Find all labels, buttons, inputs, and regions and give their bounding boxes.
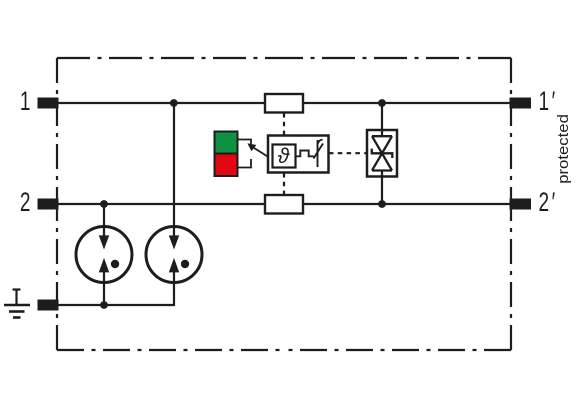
- svg-text:protected: protected: [556, 114, 572, 184]
- TVS triangle diagonal B: [372, 136, 392, 170]
- GDT1 top electrode arrow: [99, 235, 109, 249]
- GDT1 gas-filled dot: [111, 260, 119, 268]
- switch blade diagonal: [314, 144, 324, 159]
- dashed link resistor1 to thermal device: [283, 113, 285, 135]
- wire TVS bottom lead: [381, 171, 383, 205]
- wire line 1 right segment: [303, 102, 510, 104]
- wire line 2 left segment: [58, 203, 265, 205]
- junction node line2/TVS: [378, 200, 386, 208]
- wire ground rail: [58, 304, 175, 306]
- GDT1 bottom electrode arrow: [99, 258, 109, 273]
- junction node line2/GDT1: [100, 200, 108, 208]
- dashed link thermal device to TVS: [329, 152, 366, 154]
- wire GDT2 top lead from line 1: [173, 103, 175, 227]
- svg-text:ϑ: ϑ: [278, 145, 291, 168]
- indicator linkage upper bracket: [238, 140, 252, 146]
- TVS inner vertical lead bottom: [381, 171, 383, 177]
- junction node line1/TVS: [378, 99, 386, 107]
- svg-text:2: 2: [20, 187, 31, 217]
- terminal ground block: [38, 300, 59, 311]
- terminal 1' block: [510, 98, 532, 109]
- GDT2 top electrode arrow: [169, 235, 179, 249]
- resistor (series impedance) line 2: [265, 195, 303, 214]
- GDT2 top electrode shaft: [173, 227, 175, 238]
- ground symbol: [4, 290, 30, 318]
- enclosure boundary dash-dot bottom: [57, 349, 285, 351]
- svg-text:1′: 1′: [539, 86, 556, 116]
- TVS inner vertical lead top: [381, 130, 383, 136]
- terminal 1 block: [38, 98, 59, 109]
- indicator actuating rod with arrow: [253, 147, 269, 157]
- GDT2 gas-filled dot: [181, 260, 189, 268]
- TVS top cathode edge: [372, 135, 392, 137]
- terminal 2' block: [510, 199, 532, 210]
- wire GDT1 bottom lead: [103, 282, 105, 305]
- wire line 1 left segment: [58, 102, 265, 104]
- TVS suppressor diode box: [367, 130, 397, 177]
- enclosure boundary dash-dot left: [56, 58, 58, 200]
- GDT2 bottom electrode shaft: [173, 270, 175, 282]
- GDT2 bottom electrode arrow: [169, 258, 179, 273]
- gas discharge tube GDT1 circle: [76, 227, 132, 283]
- indicator linkage lower bracket: [238, 159, 252, 168]
- gas discharge tube GDT2 circle: [146, 227, 202, 283]
- resistor (series impedance) line 1: [265, 94, 303, 113]
- GDT1 bottom electrode shaft: [103, 270, 105, 282]
- svg-text:1: 1: [20, 86, 31, 116]
- thermal disconnect device U1 box: [268, 136, 329, 173]
- switch fixed contact line: [317, 140, 319, 167]
- svg-text:2′: 2′: [539, 187, 556, 217]
- status indicator red flag: [215, 154, 238, 177]
- trip pulse symbol: [296, 151, 314, 157]
- status indicator green flag: [215, 132, 238, 154]
- junction node ground/GDT1: [100, 301, 108, 309]
- thermal sensor box with theta: [273, 145, 296, 168]
- dashed link thermal device to resistor2: [283, 173, 285, 195]
- GDT1 top electrode shaft: [103, 227, 105, 238]
- TVS bottom cathode edge: [372, 169, 392, 171]
- switch actuator hook: [318, 140, 323, 147]
- wire GDT2 bottom lead: [173, 282, 175, 306]
- TVS triangle diagonal A: [372, 136, 392, 170]
- terminal 2 block: [38, 199, 59, 210]
- enclosure boundary dash-dot top: [57, 57, 285, 59]
- wire TVS top lead: [381, 103, 383, 136]
- enclosure boundary dash-dot right: [510, 58, 512, 200]
- wire line 2 right segment: [303, 203, 510, 205]
- TVS zener bar: [372, 149, 393, 158]
- junction node line1/GDT2: [170, 99, 178, 107]
- wire GDT1 top lead: [103, 204, 105, 227]
